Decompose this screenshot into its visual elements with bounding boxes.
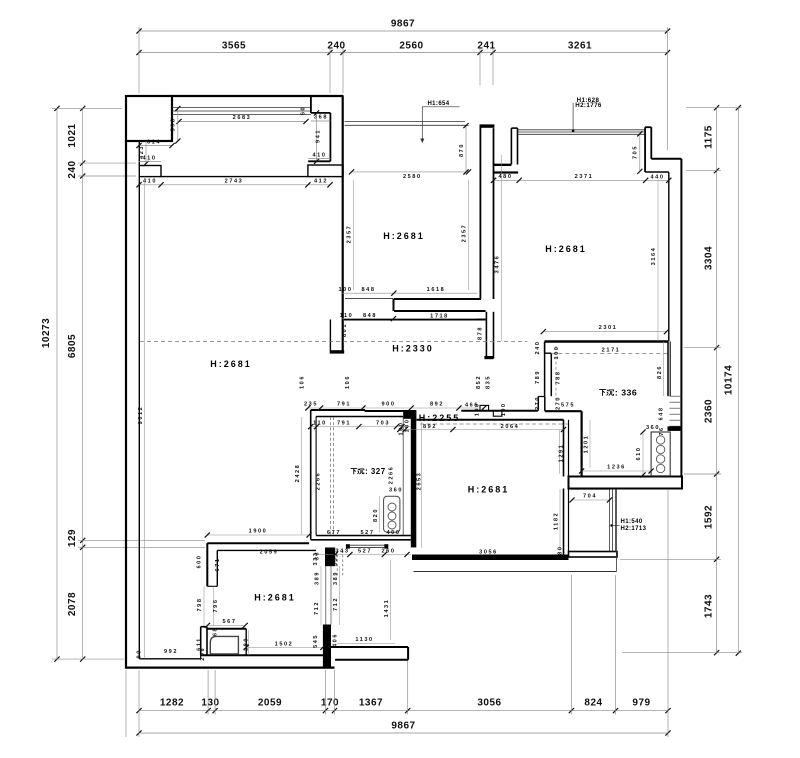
fixture water heater circles [656,436,664,444]
wall foyer cap top filled [480,124,495,127]
svg-text:2580: 2580 [403,174,422,180]
wall cap bottom of x343 wall [330,350,345,353]
svg-text:406: 406 [333,633,339,647]
wall bottom band top edge middle [201,654,331,656]
dim 2653 vertical [421,422,423,548]
svg-text:575: 575 [561,403,575,409]
dim 9012 living left [144,177,146,659]
wall vertical between living and bedroom2 x343 [342,96,344,353]
dim 1900 bedroom1 top [207,534,309,536]
wall bottom band right of bedroom1 outline [331,646,408,648]
svg-text:1130: 1130 [355,637,373,643]
svg-text:2266: 2266 [389,466,395,485]
dim 2428 vertical [301,417,303,535]
svg-text:712: 712 [333,597,339,611]
bedroom1 door dashed leaf [336,550,338,577]
dim 3476 vertical [501,155,503,341]
svg-text:1618: 1618 [427,287,446,293]
svg-text:2301: 2301 [599,325,618,331]
dim 1130 [337,642,395,644]
svg-text:110: 110 [340,313,354,319]
wall bedroom3 bottom thick line [545,340,669,343]
svg-text:180: 180 [558,546,564,560]
svg-text:789: 789 [535,370,541,384]
svg-text:1431: 1431 [384,599,390,618]
svg-text:410: 410 [143,178,157,184]
wall big room top thick [417,419,564,421]
svg-text:: 327: : 327 [365,467,386,476]
wall bathroom2 inner horizontal 575 [545,410,582,412]
wall cap under bathroom2 window filled [668,426,682,431]
svg-text:466: 466 [465,403,479,409]
fixture kitchen sink rounded rect [384,496,400,532]
dim 1502 [246,646,323,648]
wall bottom-left exterior outer [126,666,335,668]
svg-text:1900: 1900 [249,529,268,535]
left chain extension lines [52,107,122,109]
dimension chain left overall 10273 [56,108,58,659]
svg-text:360: 360 [646,425,660,431]
window bathroom2 right hatch [670,395,682,397]
balcony right window top line [571,488,610,490]
window top-left balcony triple lines [172,107,311,109]
bedroom1 right wall thin lines [325,566,327,624]
svg-text:796: 796 [213,599,219,613]
wall foyer left x480-493 upper piece [479,125,481,299]
kitchen door threshold [350,544,384,546]
fixture kitchen sink circles [388,503,396,511]
svg-text:892: 892 [430,402,444,408]
svg-text:3056: 3056 [479,550,498,556]
svg-text:389: 389 [333,571,339,585]
svg-text:2266: 2266 [316,472,322,491]
wall bedroom1 top outer 1900 [207,542,309,544]
dim 870 vertical [465,126,467,172]
fixture water heater bathroom2 [651,432,670,476]
svg-text:1175: 1175 [704,125,715,149]
room label kitchen xiachen 327 [351,469,357,474]
svg-text:878: 878 [478,326,484,340]
svg-text:2059: 2059 [258,698,282,709]
wall bathroom2 right upper [667,342,669,397]
dimension chain bottom overall 9867 [139,732,668,734]
svg-text:H:2681: H:2681 [254,593,296,603]
svg-text:389: 389 [315,571,321,585]
svg-text:H:2681: H:2681 [545,244,587,254]
dim 368 chimney [311,120,331,122]
dim row 480 2371 440 bedroom3 [494,179,669,181]
svg-text:60: 60 [301,106,307,115]
svg-text:545: 545 [313,634,319,648]
dim row 100 892 2064 under big room wall [400,429,564,431]
wall kitchen top outer [311,409,365,411]
svg-text:1592: 1592 [704,505,715,529]
wall stub top-left 410 pier [139,166,161,177]
svg-text:170: 170 [321,698,339,709]
wall top-right corner inner [645,171,669,173]
svg-text:410: 410 [143,156,157,162]
svg-text:2357: 2357 [347,225,353,244]
svg-text:H:2681: H:2681 [468,485,510,495]
wall top exterior [172,95,344,97]
balcony right window vertical lines [609,489,611,552]
svg-text:106: 106 [300,375,306,389]
svg-text:870: 870 [459,143,465,157]
svg-text:1502: 1502 [275,641,294,647]
svg-text:826: 826 [657,365,663,379]
svg-text:: 336: : 336 [615,388,637,398]
svg-text:791: 791 [337,420,351,426]
svg-text:1201: 1201 [584,435,590,454]
wall entry shaft stub [510,128,512,164]
wall left interior inner line [138,141,140,166]
wall balcony right window band [569,552,618,558]
wall bedroom1 door column filled [325,548,335,567]
dim 410 chimney bottom [308,158,330,160]
svg-text:598: 598 [171,118,177,132]
wall bathroom2 inner vertical [580,411,582,477]
wall bedroom2 bottom right band top [394,298,481,300]
wall bedroom1 top inner [217,549,316,551]
svg-text:440: 440 [651,174,665,180]
svg-text:106: 106 [345,375,351,389]
dim 1236 [582,470,652,472]
svg-text:100: 100 [339,287,353,293]
svg-text:527: 527 [361,530,375,536]
fixture washbasin bathroom1 inner rounded [210,636,238,654]
svg-text:835: 835 [486,375,492,389]
wall bathroom2 bottom band outline [569,477,683,489]
wall chimney top-right of living room [310,96,312,113]
svg-text:941: 941 [316,129,322,143]
dimension chain top row2 3565/240/2560/241/3261 [139,52,668,54]
svg-text:979: 979 [632,698,650,709]
svg-text:2078: 2078 [67,592,78,616]
wall hallway top lower line [344,319,486,321]
wall living room top sill line 2743 [161,176,308,178]
svg-text:788: 788 [556,371,562,385]
svg-text:600: 600 [197,555,203,569]
dim row 677 527 400 kitchen bottom [316,536,411,538]
dim 410 pier top [139,161,161,163]
bay window bedroom2 lines [345,121,466,123]
svg-text:270: 270 [535,396,541,410]
svg-text:848: 848 [363,313,377,319]
wall hallway top upper line [394,310,486,312]
svg-text:260: 260 [382,548,396,554]
dim 3164 vertical bedroom3 [657,180,659,341]
wall big room bottom filled band [412,555,569,561]
kitchen counter inner line [402,417,404,536]
svg-text:3261: 3261 [568,41,592,52]
svg-text:90: 90 [137,649,143,658]
svg-text:129: 129 [67,529,78,547]
svg-text:900: 900 [382,402,396,408]
dim 941 vertical chimney [316,113,318,161]
dim row 235 791 900 892 466 [308,407,484,409]
right chain extension lines [686,107,742,109]
kitchen door jamb blocks [346,544,350,548]
dim 610 vertical [642,432,644,475]
dim row 410 2743 412 [139,184,330,186]
dim 826 vertical [663,342,665,397]
dim row 110 791 703 100 kitchen [311,426,411,428]
svg-text:1743: 1743 [704,594,715,618]
svg-text:333: 333 [333,552,339,566]
svg-text:333: 333 [313,552,319,566]
bottom chain extension lines [125,670,127,737]
svg-text:9012: 9012 [138,406,144,425]
wall bathroom1 left pier outline [200,627,202,656]
balcony outer slab line [414,571,617,573]
svg-text:610: 610 [636,447,642,461]
svg-text:1182: 1182 [554,512,560,530]
dimension chain right row 1175/3304/2360/1592/1743 [716,108,718,654]
top chain extension lines [138,27,140,93]
wall jog piece left of bathroom2 door [537,397,539,411]
dimension chain top overall 9867 [139,30,668,32]
dim 798 vertical [203,586,205,626]
svg-text:6805: 6805 [67,334,78,358]
svg-text:400: 400 [387,530,401,536]
svg-text:704: 704 [583,494,597,500]
dim 705 vertical [639,134,641,172]
opening sill line bedroom2 bottom left part [345,298,393,300]
wall bedroom1 left piece [206,543,208,586]
svg-text:68: 68 [213,627,219,636]
svg-text:3304: 3304 [704,246,715,270]
svg-text:H1:540: H1:540 [621,519,643,525]
svg-text:410: 410 [313,153,327,159]
svg-text:820: 820 [373,508,379,522]
dim 2357 right bedroom2 [468,180,470,290]
svg-text:2371: 2371 [575,174,594,180]
svg-text:76: 76 [659,426,665,435]
svg-text:798: 798 [197,598,203,612]
wall bathroom2 left double [544,342,546,397]
wall foyer cap bottom filled [484,356,493,359]
wall kitchen left [310,410,312,540]
svg-text:412: 412 [314,178,328,184]
dashed line under big room top wall [420,423,568,425]
svg-text:677: 677 [327,530,341,536]
wall kitchen top-right cap filled [403,410,416,419]
wall entry shaft bottom thick [494,164,512,166]
svg-text:712: 712 [314,601,320,615]
svg-text:360: 360 [389,488,403,494]
wall between foyer and dining y410.8 [461,410,538,412]
dashed line bathroom2 2171 [551,353,668,355]
svg-text:1282: 1282 [160,698,184,709]
dim 567 basin [207,624,245,626]
svg-text:2743: 2743 [225,178,244,184]
svg-text:100: 100 [554,346,560,360]
svg-text:992: 992 [164,649,178,655]
dim 2357 left bedroom2 [353,180,355,290]
svg-text:1718: 1718 [430,313,449,319]
svg-text:1236: 1236 [607,465,626,471]
svg-text:H:2255: H:2255 [419,413,461,423]
svg-text:H:2681: H:2681 [383,231,425,241]
svg-text:824: 824 [584,698,602,709]
dim line 110/848/1718 row [341,318,477,320]
svg-text:848: 848 [362,287,376,293]
svg-text:527: 527 [358,548,372,554]
dim 598 vertical [177,109,179,142]
wall top-right corner outer [651,158,681,160]
svg-text:235: 235 [304,402,318,408]
dim row 100 848 1618 bedroom2 bottom [341,292,477,294]
svg-text:3476: 3476 [495,255,501,274]
svg-text:852: 852 [476,375,482,389]
svg-text:H:2681: H:2681 [210,359,252,369]
dim 704 balcony [572,499,610,501]
dim row 343 527 260 [316,554,411,556]
svg-text:801: 801 [342,323,348,337]
svg-text:2653: 2653 [417,472,423,491]
svg-text:10273: 10273 [41,318,52,348]
wall kitchen bottom [316,534,411,536]
svg-text:1367: 1367 [359,698,383,709]
svg-text:2171: 2171 [602,348,621,354]
svg-text:3164: 3164 [651,247,657,266]
svg-text:671: 671 [215,558,221,572]
wall window right stub [644,127,646,172]
svg-text:368: 368 [314,115,328,121]
dim 1291 vertical [559,430,561,474]
window entry top triple lines [518,129,645,131]
svg-text:2357: 2357 [462,224,468,243]
dim 2580 bedroom2 top [352,171,469,173]
wall piece below shaft y172.5 [494,171,518,173]
room label bathroom2 xiachen 336 [600,390,606,396]
svg-text:2059: 2059 [260,550,279,556]
wall kitchen top inner [316,416,403,418]
dim 614 [139,145,172,147]
svg-text:567: 567 [223,619,237,625]
svg-text:240: 240 [535,341,541,355]
svg-text:2360: 2360 [704,399,715,423]
wall left exterior outer [125,141,127,669]
wall small bump above line [480,405,489,410]
svg-text:130: 130 [201,698,219,709]
svg-text:2683: 2683 [233,115,252,121]
svg-text:10174: 10174 [724,365,735,395]
kitchen sunken boundary dashed [330,417,332,535]
svg-text:480: 480 [499,174,513,180]
dim 712 verticals [320,566,322,625]
svg-text:H2:1776: H2:1776 [575,102,602,109]
svg-text:3056: 3056 [477,698,501,709]
dim 423 vertical [145,141,147,164]
dim 2301 bathroom2 top [543,331,666,333]
svg-text:H:2330: H:2330 [392,344,434,354]
wall step at left of bedroom3 bottom [544,342,546,354]
svg-text:2428: 2428 [295,464,301,483]
dim 1182 vertical [559,489,561,551]
dim 820 vertical sink [379,496,381,532]
svg-text:1291: 1291 [559,444,565,463]
wall pier right end of living room top [308,165,343,177]
svg-text:3565: 3565 [222,41,246,52]
wall big room right double [563,420,565,477]
svg-text:614: 614 [147,140,161,146]
svg-text:206: 206 [200,647,206,661]
wall small bump below line [493,411,502,416]
svg-text:892: 892 [423,424,437,430]
dim 796 vertical [213,586,215,626]
svg-text:100: 100 [399,422,405,436]
svg-text:791: 791 [337,402,351,408]
wall bottom-left interior inner line [139,658,200,660]
svg-text:110: 110 [313,420,327,426]
fixture washbasin bathroom1 outer [207,628,246,630]
dashed beam line hallway [140,341,528,343]
dimension chain bottom row 1282/130/2059/170/1367/3056/824/979 [139,710,668,712]
dim 1431 vertical [390,560,392,640]
svg-text:H1:654: H1:654 [427,101,449,107]
svg-text:1021: 1021 [67,123,78,147]
svg-text:2560: 2560 [399,41,423,52]
dim 2683 top window [179,121,306,123]
svg-text:240: 240 [67,160,78,178]
wall foyer lower piece [485,312,487,359]
svg-text:648: 648 [659,407,665,421]
svg-text:9867: 9867 [391,19,415,30]
wall balcony block top-left [126,96,172,141]
dimension chain right overall 10174 [737,108,739,654]
dim 1201 vertical [589,420,591,468]
dimension chain left row2 1021/240/6805/129/2078 [82,108,84,659]
wall bedroom1 right pier filled [323,625,331,668]
svg-text:100: 100 [501,402,507,416]
dashed vertical bathroom2 [555,346,557,404]
svg-text:100: 100 [405,419,411,433]
svg-text:H2:1713: H2:1713 [621,526,647,532]
wall kitchen right filled [411,411,417,547]
svg-text:9867: 9867 [391,721,415,732]
svg-text:703: 703 [376,420,390,426]
dim 280 vertical [248,630,250,655]
svg-text:705: 705 [633,145,639,159]
svg-text:2064: 2064 [501,424,520,430]
